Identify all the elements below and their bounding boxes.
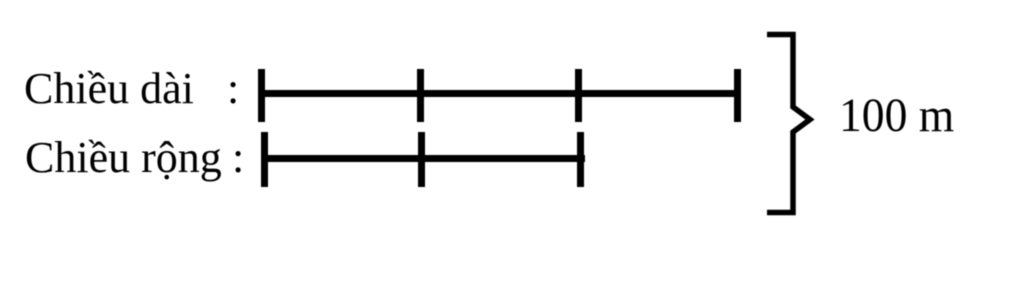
label "Chieu dai" xyxy=(24,67,194,111)
length bar tick 2 xyxy=(417,69,424,122)
width bar tick 2 xyxy=(418,132,425,187)
length bar tick 3 xyxy=(575,69,582,122)
width bar tick 3 xyxy=(577,132,584,187)
wire: width bar horizontal line xyxy=(261,155,585,162)
value label 100 m xyxy=(839,92,954,140)
colon after Chieu dai xyxy=(227,67,239,111)
label "Chieu rong" xyxy=(25,136,222,180)
length bar tick 1 xyxy=(258,69,265,122)
width bar tick 1 xyxy=(261,132,268,187)
length bar tick 4 xyxy=(734,69,741,122)
colon after Chieu rong xyxy=(232,136,244,180)
wire: length bar horizontal line xyxy=(258,90,741,97)
